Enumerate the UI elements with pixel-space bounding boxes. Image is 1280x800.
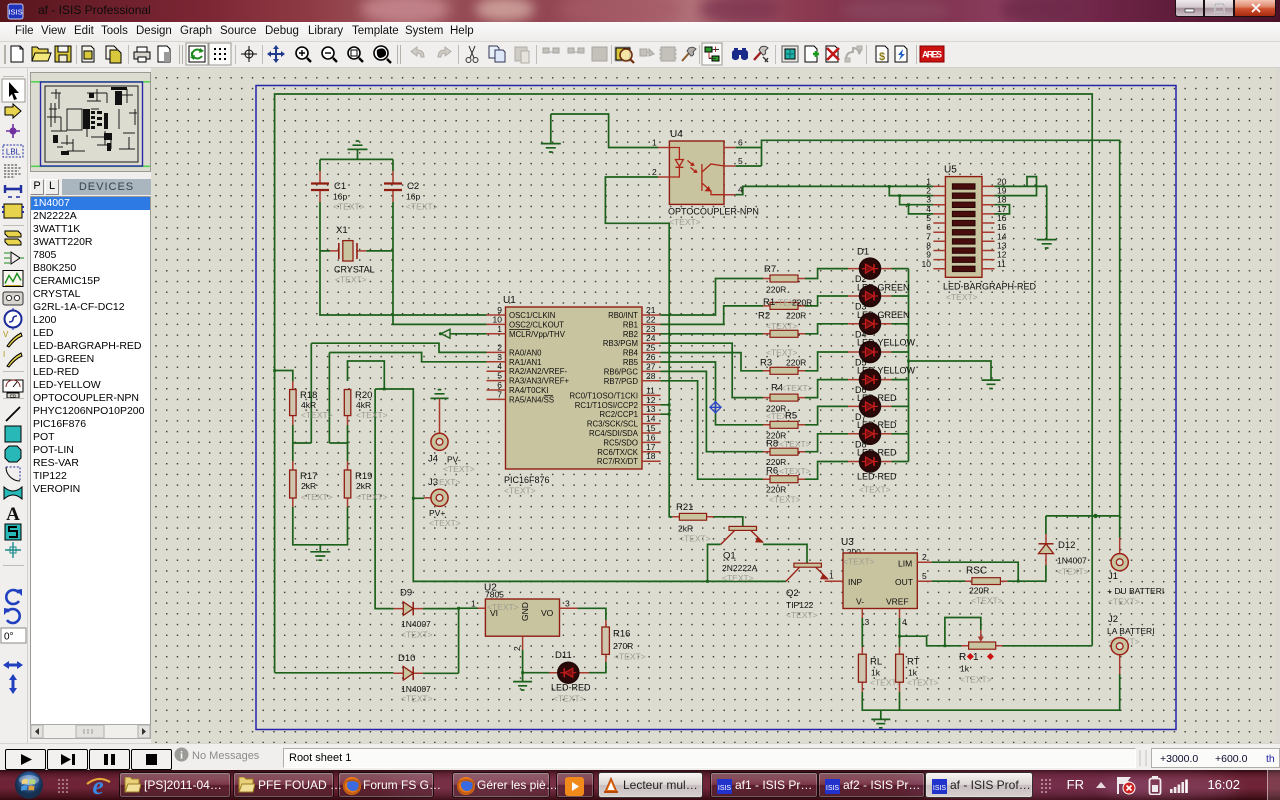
junction dot <box>6 124 20 138</box>
v flip <box>9 674 17 694</box>
svg-text:<TEXT>: <TEXT> <box>669 217 701 227</box>
svg-text:5: 5 <box>738 156 743 166</box>
svg-text:1: 1 <box>471 599 476 609</box>
connector J2 <box>1107 614 1155 674</box>
grid (pressed) <box>209 43 231 65</box>
origin <box>241 46 257 62</box>
new <box>11 46 23 62</box>
svg-text:1N4007: 1N4007 <box>1057 556 1087 566</box>
svg-text:<TEXT>: <TEXT> <box>786 610 818 620</box>
svg-text:<TEXT>: <TEXT> <box>769 495 801 505</box>
svg-text:<TEXT>: <TEXT> <box>406 202 438 212</box>
svg-text:<TEXT>: <TEXT> <box>843 557 875 567</box>
svg-text:<TEXT>: <TEXT> <box>859 485 891 495</box>
tape recorder <box>3 292 23 305</box>
resistor R20 <box>344 390 387 426</box>
svg-text:<TEXT>: <TEXT> <box>779 439 811 449</box>
svg-text:<TEXT>: <TEXT> <box>401 630 433 640</box>
svg-text:OUT: OUT <box>895 577 913 587</box>
subcircuit <box>2 204 24 218</box>
optocoupler U4 <box>652 129 759 227</box>
svg-text:<TEXT>: <TEXT> <box>907 678 939 688</box>
ground top center <box>348 141 368 149</box>
svg-text:<TEXT>: <TEXT> <box>722 573 754 583</box>
wire R16 to D11 <box>589 662 606 673</box>
svg-text:RC1/T1OSI/CCP2: RC1/T1OSI/CCP2 <box>575 401 638 410</box>
resistor R5 <box>763 411 805 441</box>
terminal <box>4 252 24 264</box>
wire RV1 wiper loop <box>945 618 981 646</box>
wire Q1 emitter to Q2 base <box>763 544 807 563</box>
save <box>55 46 71 62</box>
paste <box>515 47 529 63</box>
svg-text:i: i <box>180 751 183 762</box>
svg-text:<TEXT>: <TEXT> <box>335 275 367 285</box>
svg-text:D9: D9 <box>400 588 412 599</box>
svg-text:RA4/T0CKI: RA4/T0CKI <box>509 386 548 395</box>
svg-text:ISIS: ISIS <box>933 785 947 792</box>
property tool <box>754 46 768 62</box>
wire LED cathode bus <box>892 269 909 462</box>
svg-text:LA BATTERI: LA BATTERI <box>1107 626 1155 636</box>
svg-text:RSC: RSC <box>966 566 987 577</box>
resistor R16 <box>602 620 646 662</box>
svg-text:2kR: 2kR <box>301 481 316 491</box>
svg-text:7: 7 <box>497 389 502 399</box>
diode D10 <box>394 653 433 704</box>
svg-text:1k: 1k <box>908 668 918 678</box>
connector J4 <box>428 399 475 474</box>
resistor R8 <box>763 439 811 468</box>
2D arc <box>6 467 20 481</box>
svg-text:28: 28 <box>646 371 656 381</box>
svg-text:3: 3 <box>865 617 870 627</box>
wire PIC RB5 to R5 <box>661 362 764 425</box>
wire R3 to D4 <box>805 352 848 371</box>
ground U4 left <box>541 144 561 152</box>
new sheet <box>805 46 819 62</box>
svg-text:2: 2 <box>652 167 657 177</box>
svg-text:0°: 0° <box>4 632 14 643</box>
svg-text:220R: 220R <box>766 485 786 495</box>
svg-text:+ DU BATTERI: + DU BATTERI <box>1107 586 1164 596</box>
copy <box>489 46 505 62</box>
wire U3 LIM loop <box>932 562 1019 581</box>
component mode <box>5 104 21 118</box>
svg-text:<TEXT>: <TEXT> <box>1057 567 1089 577</box>
bus <box>5 185 21 197</box>
wire R6 to D8 <box>805 462 848 480</box>
text script <box>4 165 22 177</box>
resistor R6 <box>763 466 811 505</box>
svg-text:RC5/SDO: RC5/SDO <box>603 438 638 447</box>
LED D11 <box>549 650 591 704</box>
svg-text:R21: R21 <box>676 502 693 513</box>
svg-text:4: 4 <box>738 185 743 195</box>
svg-text:RB3/PGM: RB3/PGM <box>603 339 638 348</box>
resistor R7 <box>763 264 805 295</box>
svg-text:<TEXT>: <TEXT> <box>971 596 1003 606</box>
wire bottom rail RL RT gnd J2 <box>862 674 1119 719</box>
svg-text:1: 1 <box>973 652 979 663</box>
wire U4 pin6 to rail2 J1 <box>735 140 1119 537</box>
wire R18 top tap <box>275 371 293 382</box>
ERC <box>895 46 907 62</box>
svg-text:<TEXT>: <TEXT> <box>333 202 365 212</box>
start orb <box>12 770 46 800</box>
svg-text:<TEXT>: <TEXT> <box>553 694 585 704</box>
remove sheet <box>826 46 839 62</box>
LED D4 <box>848 342 916 376</box>
svg-text:U5: U5 <box>944 165 957 176</box>
transistor Q1 <box>721 526 764 583</box>
2D marker <box>5 542 21 558</box>
svg-text:Q2: Q2 <box>786 588 799 599</box>
svg-text:11: 11 <box>997 259 1006 269</box>
wire R4 to D5 <box>805 380 848 398</box>
resistor RT <box>896 647 939 692</box>
crystal X1 <box>330 225 375 285</box>
wire PIC RB1 to R1 <box>661 306 764 325</box>
device <box>5 231 21 245</box>
svg-text:EB: EB <box>10 394 16 399</box>
wire R8 to D7 <box>805 434 848 452</box>
wire U3 OUT to RSC to D12 <box>932 565 1046 581</box>
svg-text:16p: 16p <box>333 192 347 202</box>
svg-text:R8: R8 <box>766 439 778 450</box>
ARES <box>920 46 944 62</box>
svg-text:GND: GND <box>520 602 530 621</box>
resistor R3 <box>760 348 806 375</box>
angle box <box>1 628 26 643</box>
autorouter (pressed) <box>702 43 722 65</box>
svg-text:RC7/RX/DT: RC7/RX/DT <box>597 457 638 466</box>
packaging (disabled) <box>659 47 677 61</box>
svg-text:<EXT>: <EXT> <box>434 477 460 487</box>
2D box <box>5 426 21 442</box>
wire U2 VO to R16 <box>577 608 606 620</box>
block copy/move/rotate/delete (disabled) <box>543 47 630 61</box>
svg-text:J2: J2 <box>1108 614 1118 625</box>
wire U3 V- to RL <box>861 618 863 647</box>
svg-text:<TEXT>: <TEXT> <box>960 675 992 685</box>
current probe <box>3 350 22 367</box>
wire R2 to D3 <box>805 324 848 334</box>
LED D2 <box>848 286 910 321</box>
generator <box>5 308 22 330</box>
zoom area <box>374 46 391 63</box>
wire U5 right pins to ground <box>995 177 1047 239</box>
ground J4 <box>431 390 449 399</box>
ground U2 <box>513 682 532 690</box>
BOM <box>876 46 888 63</box>
transistor Q2 <box>786 563 843 620</box>
import doc <box>82 46 94 62</box>
wire RA0 divider sense <box>293 343 487 461</box>
svg-text:RB0/INT: RB0/INT <box>608 311 638 320</box>
svg-text:ARES: ARES <box>922 50 942 60</box>
svg-text:R3: R3 <box>760 358 772 369</box>
2D circle <box>5 446 21 462</box>
ground LED bus <box>982 380 1001 388</box>
svg-text:R: R <box>959 652 966 663</box>
wire RA1 divider sense <box>329 353 486 462</box>
LED D5 <box>848 369 897 403</box>
svg-text:RC3/SCK/SCL: RC3/SCK/SCL <box>587 420 639 429</box>
svg-text:220R: 220R <box>792 298 812 308</box>
redo (disabled) <box>438 47 451 57</box>
svg-text:OSC2/CLKOUT: OSC2/CLKOUT <box>509 320 564 329</box>
ground RL RT <box>871 719 890 727</box>
svg-text:1: 1 <box>497 324 502 334</box>
svg-text:1N4007: 1N4007 <box>401 619 431 629</box>
svg-text:1: 1 <box>652 138 657 148</box>
voltage probe <box>3 330 22 347</box>
svg-text:6: 6 <box>738 138 743 148</box>
svg-text:X1: X1 <box>336 225 348 236</box>
svg-text:LED-BARGRAPH-RED: LED-BARGRAPH-RED <box>943 282 1037 292</box>
2D line <box>6 407 20 421</box>
wire oscillator loop C1 C2 X1 <box>320 150 487 325</box>
wire D9 D10 cathodes to U2 VI <box>423 608 478 673</box>
svg-text:RB7/PGD: RB7/PGD <box>604 377 639 386</box>
svg-text:RL: RL <box>870 657 882 668</box>
svg-text:e: e <box>92 773 103 800</box>
wire MCLR <box>450 333 487 335</box>
svg-text:ISIS: ISIS <box>718 785 732 792</box>
svg-text:<TEXT>: <TEXT> <box>779 466 811 476</box>
svg-text:LED-RED: LED-RED <box>551 683 591 693</box>
LED D8 <box>848 451 897 495</box>
rotate ccw <box>4 608 20 623</box>
svg-text:RA2/AN2/VREF-: RA2/AN2/VREF- <box>509 367 567 376</box>
refresh (pressed) <box>186 43 208 65</box>
2D path <box>4 487 22 499</box>
svg-text:<TEXT>: <TEXT> <box>301 410 333 420</box>
svg-text:J1: J1 <box>1108 571 1118 582</box>
resistor RL <box>858 647 901 692</box>
svg-text:$: $ <box>879 51 885 63</box>
wire RV1 right to rail <box>1003 645 1092 647</box>
resistor R2 <box>758 311 806 338</box>
goto sheet (disabled) <box>845 46 862 62</box>
svg-text:ISIS: ISIS <box>8 8 22 17</box>
svg-text:<TEXT>: <TEXT> <box>401 694 433 704</box>
svg-text:Q1: Q1 <box>723 551 736 562</box>
instrument <box>3 380 23 399</box>
wire gnd to U4 pin1 <box>551 114 658 148</box>
wire D11 to U2 GND pin <box>523 650 549 681</box>
IE icon <box>84 772 112 800</box>
mark <box>158 46 170 62</box>
2D symbol <box>5 524 21 540</box>
svg-text:INP: INP <box>848 577 863 587</box>
pick device <box>616 48 634 63</box>
resistor R1 <box>763 297 812 309</box>
svg-text:3: 3 <box>565 599 570 609</box>
wire PIC RB3 to R4 <box>661 343 764 397</box>
design explorer <box>782 46 798 62</box>
svg-text:<TEXT>: <TEXT> <box>504 486 536 496</box>
svg-text:PIC16F876: PIC16F876 <box>504 475 550 485</box>
connector J3 <box>424 477 461 528</box>
svg-text:RC4/SDI/SDA: RC4/SDI/SDA <box>589 429 639 438</box>
wire PIC RB4 to R3 <box>661 353 764 371</box>
diode D9 <box>394 588 433 640</box>
svg-text:C2: C2 <box>407 181 419 192</box>
bargraph U5 <box>922 165 1037 303</box>
rotate cw <box>6 589 22 604</box>
wire R17 R19 to ground <box>293 507 348 551</box>
svg-text:<TEXT>: <TEXT> <box>766 321 798 331</box>
svg-text:V-: V- <box>856 597 864 607</box>
svg-text:RB2: RB2 <box>623 330 638 339</box>
svg-text:2N2222A: 2N2222A <box>722 563 758 573</box>
svg-text:220R: 220R <box>786 358 806 368</box>
svg-text:OSC1/CLKIN: OSC1/CLKIN <box>509 311 555 320</box>
wire label <box>3 145 23 157</box>
svg-text:7805: 7805 <box>485 590 504 600</box>
capacitor C2 <box>384 171 438 212</box>
2D text <box>6 504 20 525</box>
node MCLR default terminal <box>439 329 450 338</box>
LED D3 <box>848 313 916 347</box>
svg-text:5: 5 <box>922 571 927 581</box>
svg-text:1k: 1k <box>871 668 881 678</box>
svg-text:<TEXT>: <TEXT> <box>1108 597 1140 607</box>
svg-text:RC2/CCP1: RC2/CCP1 <box>599 410 638 419</box>
wire PV+ net J3 D9 <box>348 361 787 609</box>
wire J1 to D12 cathode <box>1046 516 1120 534</box>
LED D1 <box>848 247 910 293</box>
svg-text:RB4: RB4 <box>623 349 639 358</box>
pan <box>267 45 285 63</box>
wire R5 to D6 <box>805 406 848 424</box>
PIC16F876 U1 <box>487 295 661 496</box>
capacitor C1 <box>311 171 365 212</box>
undo (disabled) <box>411 47 424 57</box>
svg-text:1N4007: 1N4007 <box>401 684 431 694</box>
svg-text:V: V <box>3 330 9 339</box>
selection arrow (pressed) <box>2 79 25 102</box>
resistor R19 <box>344 461 387 507</box>
svg-text:R2: R2 <box>758 311 770 322</box>
svg-text:RA1/AN1: RA1/AN1 <box>509 358 542 367</box>
svg-text:A: A <box>6 504 20 525</box>
svg-text:PV+: PV+ <box>429 508 445 518</box>
svg-text:U1: U1 <box>503 295 516 306</box>
LED D6 <box>848 396 897 430</box>
svg-text:220R: 220R <box>766 285 786 295</box>
zoom in <box>296 47 311 62</box>
svg-text:PV-: PV- <box>447 455 461 465</box>
connector J1 <box>1107 538 1164 607</box>
svg-text:<TEXT>: <TEXT> <box>614 652 646 662</box>
svg-text:ISIS: ISIS <box>826 785 840 792</box>
svg-text:CRYSTAL: CRYSTAL <box>334 265 375 275</box>
decompose <box>682 47 696 61</box>
zoom out <box>322 47 337 62</box>
svg-text:<TEXT>: <TEXT> <box>443 464 475 474</box>
LED D7 <box>848 423 897 457</box>
svg-text:D12: D12 <box>1058 540 1075 551</box>
export docs <box>106 46 121 63</box>
resistor R21 <box>672 502 713 544</box>
svg-text:C1: C1 <box>334 181 346 192</box>
svg-text:220R: 220R <box>969 586 989 596</box>
svg-text:D1: D1 <box>857 247 869 258</box>
make device (disabled) <box>640 49 654 56</box>
node selection marker <box>710 401 722 413</box>
svg-text:J4: J4 <box>428 454 438 465</box>
svg-text:<TEXT>: <TEXT> <box>679 534 711 544</box>
svg-text:LBL: LBL <box>6 148 21 157</box>
svg-text:RA0/AN0: RA0/AN0 <box>509 348 542 357</box>
svg-text:2: 2 <box>922 552 927 562</box>
svg-text:D11: D11 <box>555 650 572 661</box>
svg-text:LED-RED: LED-RED <box>857 472 897 482</box>
wire D10 anode feed <box>275 672 394 674</box>
resistor R4 <box>763 383 813 414</box>
svg-text:VO: VO <box>541 608 554 618</box>
svg-text:4: 4 <box>902 617 907 627</box>
svg-text:R6: R6 <box>766 466 778 477</box>
resistor R17 <box>290 461 333 507</box>
binoculars <box>732 48 748 60</box>
svg-text:1k: 1k <box>960 664 970 674</box>
svg-text:2: 2 <box>512 646 522 651</box>
svg-text:1: 1 <box>829 571 834 581</box>
wire PIC RB7 to R6 <box>661 381 764 479</box>
svg-text:10: 10 <box>922 259 932 269</box>
svg-text:RA5/AN4/SS: RA5/AN4/SS <box>509 395 554 404</box>
resistor RSC <box>965 566 1007 606</box>
svg-text:TIP122: TIP122 <box>786 600 814 610</box>
svg-text:<TEXT>: <TEXT> <box>301 492 333 502</box>
svg-text:R16: R16 <box>613 629 630 640</box>
wire battery+ left rail <box>275 94 1093 673</box>
svg-text:<TEXT>: <TEXT> <box>356 492 388 502</box>
svg-text:VREF: VREF <box>886 597 909 607</box>
svg-text:U4: U4 <box>670 129 683 140</box>
svg-text:RC0/T1OSO/T1CKI: RC0/T1OSO/T1CKI <box>570 391 638 400</box>
svg-text:18: 18 <box>646 451 656 461</box>
svg-text:<TEXT>: <TEXT> <box>429 518 461 528</box>
svg-text:RC6/TX/CK: RC6/TX/CK <box>597 448 639 457</box>
svg-text:D10: D10 <box>398 653 415 664</box>
wire PIC RB6 to R8 <box>661 371 764 451</box>
svg-text:R5: R5 <box>785 411 797 422</box>
svg-text:RT: RT <box>907 657 920 668</box>
wire PIC RB2 to R2 <box>661 333 764 335</box>
svg-text:220R: 220R <box>786 311 806 321</box>
wire U3 VREF to RT and RV1 <box>900 618 962 647</box>
diode D12 <box>1039 534 1089 577</box>
regulator U3 L200 <box>825 537 932 627</box>
svg-text:<TEXT>: <TEXT> <box>781 383 813 393</box>
svg-text:RB5: RB5 <box>623 358 639 367</box>
svg-text:RB1: RB1 <box>623 320 638 329</box>
svg-text:RB6/PGC: RB6/PGC <box>604 367 639 376</box>
ground R17 R19 <box>310 552 330 560</box>
svg-text:16p: 16p <box>406 192 420 202</box>
svg-text:2kR: 2kR <box>678 524 693 534</box>
svg-text:<TEXT>: <TEXT> <box>946 292 978 302</box>
wire R1 to D2 <box>805 296 848 306</box>
graph <box>3 271 23 287</box>
svg-text:2kR: 2kR <box>356 481 371 491</box>
wire R21 to Q1 base <box>714 517 743 527</box>
